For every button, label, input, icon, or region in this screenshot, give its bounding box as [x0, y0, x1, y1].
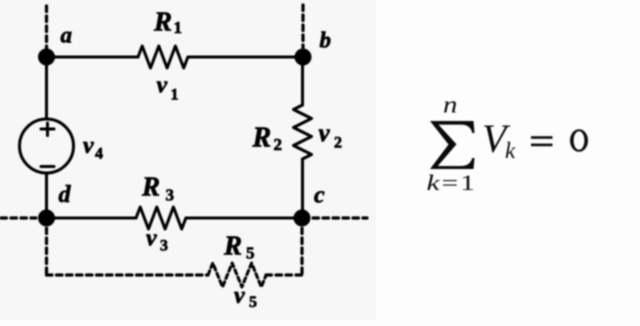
svg-text:R: R	[223, 231, 242, 261]
svg-text:v: v	[319, 120, 331, 147]
svg-text:a: a	[61, 23, 73, 48]
dashed loop left vertical below d	[45, 228, 48, 275]
resistor R2	[294, 105, 312, 159]
svg-text:2: 2	[334, 135, 342, 152]
svg-text:2: 2	[274, 135, 283, 154]
dashed stub right of node c	[313, 216, 367, 219]
node d	[38, 210, 55, 227]
dashed stub left of node d	[1, 216, 36, 219]
wire source to d	[45, 173, 48, 218]
svg-text:R: R	[252, 123, 272, 154]
svg-text:v: v	[157, 73, 168, 99]
svg-text:v: v	[83, 133, 94, 159]
wire R3 to c	[186, 217, 302, 220]
svg-text:5: 5	[246, 244, 255, 263]
wire a to source	[45, 57, 48, 119]
dashed loop bottom left segment	[47, 273, 209, 276]
zero	[570, 129, 588, 152]
svg-text:1: 1	[171, 87, 179, 104]
dashed stub above node a	[45, 6, 48, 50]
voltage source V4 circle	[20, 119, 74, 173]
svg-text:k: k	[505, 138, 516, 163]
node a	[38, 49, 55, 66]
svg-text:b: b	[320, 28, 332, 53]
minus sign	[41, 165, 54, 168]
svg-text:5: 5	[249, 294, 257, 311]
svg-text:n: n	[443, 91, 457, 118]
plus sign	[41, 123, 54, 136]
node c	[294, 210, 311, 227]
wire a to R1	[47, 56, 139, 59]
node b	[295, 49, 312, 66]
svg-text:R: R	[141, 172, 160, 202]
svg-text:R: R	[153, 7, 172, 37]
svg-text:3: 3	[160, 238, 168, 255]
svg-text:d: d	[59, 182, 72, 208]
wire d to R3	[47, 217, 137, 220]
summation sigma (drawn path, Computer Modern style)	[430, 121, 475, 169]
dashed stub above node b	[301, 5, 304, 48]
resistor R1	[138, 46, 188, 68]
circuit background panel	[0, 0, 376, 320]
svg-text:3: 3	[166, 186, 175, 205]
wire R1 to b	[188, 56, 303, 59]
wire b to R2	[301, 57, 304, 105]
wire R2 to c	[301, 159, 304, 218]
svg-text:v: v	[234, 283, 245, 309]
svg-text:v: v	[146, 226, 157, 252]
resistor R5 dashed	[208, 263, 266, 287]
svg-text:c: c	[314, 183, 325, 209]
svg-text:4: 4	[95, 146, 103, 163]
svg-text:1: 1	[174, 18, 183, 37]
svg-text:k=1: k=1	[427, 170, 477, 195]
equals sign	[531, 136, 553, 139]
dashed loop right vertical below c	[300, 228, 303, 275]
resistor R3	[136, 207, 186, 229]
dashed loop bottom right segment	[266, 273, 302, 276]
